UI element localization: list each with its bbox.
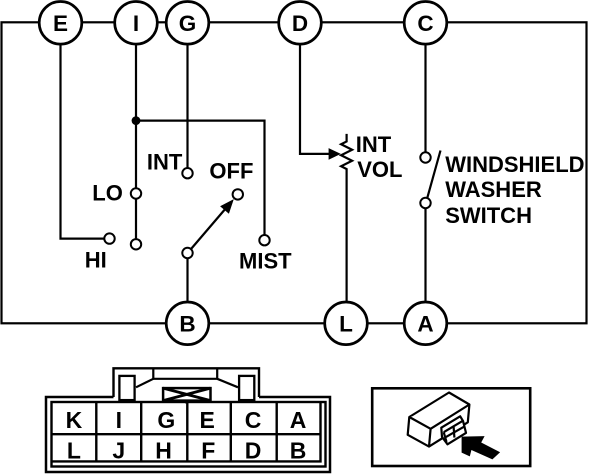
resistor INT VOL xyxy=(341,134,352,302)
relay pointer arrow xyxy=(462,436,501,459)
svg-text:G: G xyxy=(157,407,175,433)
connector body inner xyxy=(52,402,326,467)
connector latch tab left xyxy=(119,376,134,400)
wire border loop xyxy=(2,22,587,323)
svg-text:H: H xyxy=(155,438,172,464)
svg-text:C: C xyxy=(417,11,433,36)
terminal circle B xyxy=(166,302,209,345)
svg-text:I: I xyxy=(116,407,122,433)
contact pivot B xyxy=(182,248,192,258)
svg-text:J: J xyxy=(112,438,125,464)
connector rim diagonal left xyxy=(136,379,153,388)
connector rim xyxy=(114,368,260,397)
svg-text:VOL: VOL xyxy=(357,157,402,182)
connector latch tab right xyxy=(239,376,254,400)
svg-text:L: L xyxy=(67,438,81,464)
svg-text:HI: HI xyxy=(85,248,107,273)
connector rim notch xyxy=(153,368,217,379)
svg-text:I: I xyxy=(133,11,139,36)
contact washer lower xyxy=(420,198,430,208)
svg-text:K: K xyxy=(66,407,83,433)
terminal circle E xyxy=(39,2,82,45)
contact below LO xyxy=(131,239,141,249)
svg-text:L: L xyxy=(339,311,353,336)
svg-text:WINDSHIELD: WINDSHIELD xyxy=(445,152,584,177)
contact INT xyxy=(182,168,192,178)
svg-text:C: C xyxy=(245,407,262,433)
svg-text:MIST: MIST xyxy=(239,249,292,274)
connector key X-box xyxy=(163,388,210,403)
wire junction branch to MIST xyxy=(136,121,265,235)
wire C down to washer upper contact xyxy=(424,44,426,152)
connector cell grid xyxy=(52,402,321,461)
terminal circle G xyxy=(166,2,209,45)
wire switch arm to OFF xyxy=(191,209,225,249)
terminal circle C xyxy=(404,2,447,45)
contact HI xyxy=(104,233,114,243)
contact MIST xyxy=(259,235,269,245)
relay 3D body xyxy=(408,393,470,447)
arrowhead of OFF arm xyxy=(220,199,234,214)
svg-text:SWITCH: SWITCH xyxy=(445,203,532,228)
wire D down and right to pot wiper xyxy=(300,44,329,154)
connector rim diagonal right xyxy=(217,379,238,388)
wire I down through junction to lower contact xyxy=(135,44,137,239)
wire E down to HI xyxy=(61,44,105,239)
svg-text:INT: INT xyxy=(147,150,183,175)
terminal circle A xyxy=(404,302,447,345)
svg-text:D: D xyxy=(292,11,308,36)
svg-text:E: E xyxy=(53,11,68,36)
svg-text:INT: INT xyxy=(356,132,392,157)
svg-text:D: D xyxy=(245,438,262,464)
svg-text:E: E xyxy=(200,407,215,433)
svg-text:B: B xyxy=(290,438,307,464)
svg-text:B: B xyxy=(179,311,195,336)
wire G down to INT contact xyxy=(186,44,188,168)
junction dot xyxy=(132,116,141,125)
wire B up to pivot xyxy=(186,253,188,302)
relay terminal block xyxy=(441,416,466,444)
svg-text:LO: LO xyxy=(92,181,123,206)
wire washer switch arm xyxy=(427,151,440,199)
svg-text:A: A xyxy=(417,311,433,336)
relay locator box xyxy=(372,388,530,466)
svg-text:OFF: OFF xyxy=(209,159,253,184)
svg-text:F: F xyxy=(201,438,215,464)
contact LO xyxy=(131,188,141,198)
wire washer lower contact down to A xyxy=(424,208,426,302)
contact OFF xyxy=(233,189,243,199)
terminal circle L xyxy=(325,302,368,345)
contact washer upper xyxy=(420,152,430,162)
arrowhead of pot wiper xyxy=(329,148,341,160)
terminal circle I xyxy=(115,2,158,45)
connector body outer xyxy=(46,397,330,472)
svg-text:G: G xyxy=(179,11,197,36)
svg-text:A: A xyxy=(290,407,307,433)
terminal circle D xyxy=(279,2,322,45)
svg-text:WASHER: WASHER xyxy=(445,177,542,202)
